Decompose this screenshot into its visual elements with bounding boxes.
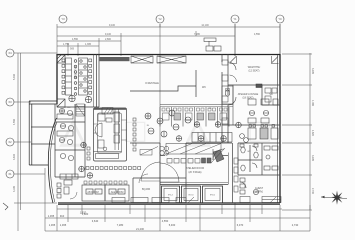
room label texts [64, 66, 273, 216]
svg-text:1,365: 1,365 [48, 214, 55, 218]
EV shaft 2 [182, 186, 201, 203]
wall x=196 [195, 70, 197, 97]
grid line X2 horizontal y=142 [14, 141, 31, 143]
svg-text:9,100: 9,100 [105, 33, 112, 36]
wall right [279, 54, 281, 203]
svg-text:(12 SEAT): (12 SEAT) [249, 70, 260, 73]
dining chairs column 2 [89, 59, 92, 62]
wall y=178 center [133, 177, 186, 179]
door arc consult room [213, 149, 224, 160]
svg-text:21,200: 21,200 [136, 227, 144, 231]
EV shaft 1 [162, 186, 223, 203]
shaft box corridor 4 [222, 60, 228, 65]
dimension lines top [57, 24, 280, 56]
entrance double door arcs [139, 146, 179, 183]
svg-text:4,550: 4,550 [162, 219, 169, 223]
wall left upper [56, 54, 58, 104]
svg-text:7,280: 7,280 [117, 223, 124, 227]
svg-text:SB: SB [269, 93, 273, 96]
svg-text:2,730: 2,730 [292, 223, 299, 227]
wall toilet stall x=250 [249, 145, 251, 172]
small service boxes above top wall [204, 38, 221, 51]
wall y=85 right [228, 84, 280, 86]
wall y=143 south band [186, 142, 232, 144]
svg-text:3,185: 3,185 [13, 185, 16, 192]
wall corridor right x=228 [227, 54, 229, 95]
wall dining south y=107 [57, 106, 99, 108]
wall x=160 lower [159, 143, 161, 203]
WC room small [222, 86, 233, 104]
grid line Y1 vertical x=235 [234, 24, 236, 56]
wall wing divider y=127 [31, 126, 55, 128]
wall kitchen west x=85 [84, 104, 86, 177]
svg-text:9,100: 9,100 [109, 24, 116, 27]
wall x=186 [185, 143, 187, 203]
right column seats [248, 99, 278, 123]
svg-text:4,550: 4,550 [13, 118, 16, 125]
shaft box corridor 2 [222, 96, 228, 102]
center hall round tables [145, 110, 191, 137]
wall x=233 lounge west [232, 85, 234, 125]
svg-text:HALL SEAT: HALL SEAT [74, 66, 77, 79]
svg-text:EV-0: EV-0 [189, 195, 195, 197]
wall x=133 lower [132, 178, 134, 203]
sliding door rect with diagonal [140, 150, 152, 156]
svg-text:Y2: Y2 [158, 17, 162, 21]
dimension line right vertical [282, 53, 312, 210]
grid bubble X3 left [6, 98, 14, 106]
wall toilet y=160 [238, 159, 262, 161]
tatami corner column top-left [230, 56, 279, 88]
wall toilet x=262 [261, 143, 263, 175]
svg-text:5,460: 5,460 [169, 223, 176, 227]
wall wing top [29, 100, 57, 102]
svg-text:4P RM: 4P RM [64, 107, 71, 109]
svg-text:12,100: 12,100 [201, 24, 209, 27]
grid line Y0 vertical x=280 [279, 24, 281, 56]
door arc toilet right 2 [252, 163, 257, 168]
svg-text:2,800: 2,800 [105, 38, 112, 41]
dining round table 2 [85, 96, 91, 102]
svg-text:3,185: 3,185 [311, 155, 314, 162]
svg-text:BQ-RM: BQ-RM [142, 188, 150, 191]
EV shaft 3 [203, 186, 223, 203]
toilet fixtures right block [240, 144, 278, 171]
wall wing divider y=144 [31, 143, 55, 145]
dining tables column 1 [62, 58, 92, 103]
grand piano diagonal [213, 150, 224, 162]
tatami corner column top-right [272, 56, 279, 64]
banquet chairs [84, 181, 127, 184]
kitchen hatch band top [102, 108, 113, 115]
kitchen chairs left column [87, 147, 90, 150]
wall column block [256, 84, 262, 88]
svg-text:5,460: 5,460 [13, 73, 16, 80]
grid bubble X4 left [6, 49, 14, 57]
svg-text:AB ROOM: AB ROOM [87, 191, 98, 194]
door arc lower room [240, 182, 246, 188]
kitchen door arc [95, 123, 102, 137]
column hatched left mid [57, 99, 65, 107]
wall left wing right x=55 [54, 104, 56, 177]
svg-text:(18 SEAT): (18 SEAT) [243, 97, 254, 100]
booth comb partitions [160, 105, 233, 127]
svg-text:4,095: 4,095 [311, 100, 314, 107]
svg-text:(2F STAGE): (2F STAGE) [189, 171, 202, 174]
long counter row center-right [176, 122, 278, 143]
shaft box corridor 1 [222, 75, 228, 81]
svg-text:X2: X2 [8, 140, 12, 144]
wall dining east x=99 [98, 54, 100, 107]
interior walls [31, 54, 280, 203]
svg-text:4,550: 4,550 [254, 33, 261, 36]
svg-text:ALE ROOM: ALE ROOM [111, 191, 124, 194]
svg-text:Y1: Y1 [233, 17, 237, 21]
svg-text:(SERV): (SERV) [255, 191, 263, 194]
wall wing bottom [29, 164, 48, 166]
round cross tables row [176, 122, 248, 143]
wall toilet y=175 [238, 174, 280, 176]
banquet tables bottom center [82, 181, 129, 201]
beam X-box 2 [157, 56, 186, 63]
wall corridor west x=75 [74, 104, 76, 177]
svg-text:Y0: Y0 [278, 17, 282, 21]
stage room chair band [167, 148, 225, 163]
svg-text:1,365: 1,365 [60, 223, 67, 227]
wall storage y=105 [262, 104, 280, 106]
grid line Y2 vertical x=160 [159, 24, 161, 231]
svg-text:X1: X1 [8, 172, 12, 176]
kitchen bottom counter [94, 151, 122, 153]
svg-text:2,730: 2,730 [311, 188, 314, 195]
storage shelves [265, 88, 271, 93]
grid bubble X1 left [6, 170, 14, 178]
svg-text:3,185: 3,185 [311, 68, 314, 75]
kitchen top dark band [94, 108, 126, 110]
wall storage x=262 [261, 85, 263, 105]
corridor wall boxes column [234, 158, 238, 192]
svg-text:EV-2: EV-2 [168, 195, 174, 197]
toilets bottom-left fixtures [57, 174, 78, 199]
wall bottom [58, 202, 280, 204]
wall left rooms divider y=150 [55, 149, 85, 151]
left mid round tables [57, 108, 74, 160]
lower right room fixtures [240, 178, 259, 195]
wall stage room top y=155.5 [160, 155, 165, 157]
svg-text:1,755: 1,755 [63, 43, 70, 46]
kitchen bar chairs bottom row [86, 118, 141, 170]
booth tables far right row [248, 128, 256, 139]
wall left rooms divider y=122 [55, 121, 85, 123]
bottom-left tick symbol [3, 203, 8, 210]
wall x=232 corridor [232, 143, 234, 203]
svg-text:1,365: 1,365 [49, 223, 56, 227]
vestibule table 4-circle [160, 146, 164, 150]
svg-text:1,820: 1,820 [82, 212, 89, 216]
grid line X4 horizontal y=53 [14, 52, 57, 54]
svg-text:X3: X3 [8, 100, 12, 104]
svg-text:3,640: 3,640 [92, 219, 99, 223]
svg-text:7,280: 7,280 [194, 33, 201, 36]
grid line X1 horizontal y=174 [14, 173, 45, 175]
svg-text:ATELIER ROOM: ATELIER ROOM [186, 167, 204, 170]
wall center L y=91 [130, 86, 196, 91]
kitchen counter outer [94, 108, 127, 162]
svg-text:910: 910 [60, 214, 65, 218]
north arrow compass star [321, 191, 347, 205]
wall corridor right x=222 [221, 54, 223, 62]
wall toilets top y=177 [55, 176, 85, 178]
svg-text:WC: WC [202, 86, 206, 89]
door arc corridor 2 [228, 97, 236, 105]
dining aisle chairs circles [74, 60, 77, 63]
wall top [57, 54, 280, 56]
svg-text:1,820: 1,820 [311, 130, 314, 137]
svg-text:O RESTAGE: O RESTAGE [145, 82, 159, 85]
grid bubble Y3 top [6, 15, 284, 178]
kitchen equipment left [98, 114, 105, 121]
svg-text:909: 909 [70, 48, 75, 51]
wall curved left facade [48, 118, 56, 203]
svg-text:EV-6: EV-6 [210, 195, 216, 197]
svg-text:Y3: Y3 [61, 17, 65, 21]
column hatched top-left [57, 55, 65, 107]
dimension lines bottom [45, 168, 310, 231]
floor round tables left of kitchen [79, 142, 93, 178]
svg-text:4,550: 4,550 [72, 38, 79, 41]
svg-text:WC: WC [247, 151, 251, 153]
door arc corridor 1 [213, 62, 257, 188]
watermark [59, 112, 270, 150]
door arc washitsu [230, 75, 237, 82]
grid bubble Y0 top [276, 15, 284, 23]
grid bubble X2 left [6, 138, 14, 146]
counter dark band top [100, 57, 130, 61]
svg-text:1,365: 1,365 [85, 43, 92, 46]
grid bubble Y2 top [156, 15, 164, 23]
shaft box corridor 3 [222, 118, 228, 124]
kitchen bar chairs right column [133, 118, 136, 121]
grid line X3 horizontal y=102 [14, 101, 31, 103]
wall y=143 center [130, 142, 160, 144]
wall toilet block x=238 [237, 143, 239, 175]
kitchen central spine [114, 109, 116, 150]
storefront boxes along bottom wall [112, 197, 281, 203]
dining tables column 2 [79, 58, 88, 95]
dining round table 1 [69, 95, 75, 101]
svg-text:X4: X4 [8, 51, 12, 55]
wall y=125 right [222, 124, 280, 126]
stair rungs [76, 104, 85, 116]
dining chairs column 1 [62, 59, 65, 62]
stage platform hatched [166, 144, 221, 155]
wall rooms y=184.5 [160, 184, 228, 186]
svg-text:3,640: 3,640 [13, 153, 16, 160]
building outer walls [29, 54, 280, 205]
wall wing left [28, 101, 30, 165]
dimension line left vertical [14, 53, 57, 231]
beam X-box 1 [131, 56, 186, 63]
svg-text:6,370: 6,370 [237, 223, 244, 227]
door arc toilet right 1 [252, 146, 257, 151]
grid bubble Y1 top [231, 15, 239, 23]
